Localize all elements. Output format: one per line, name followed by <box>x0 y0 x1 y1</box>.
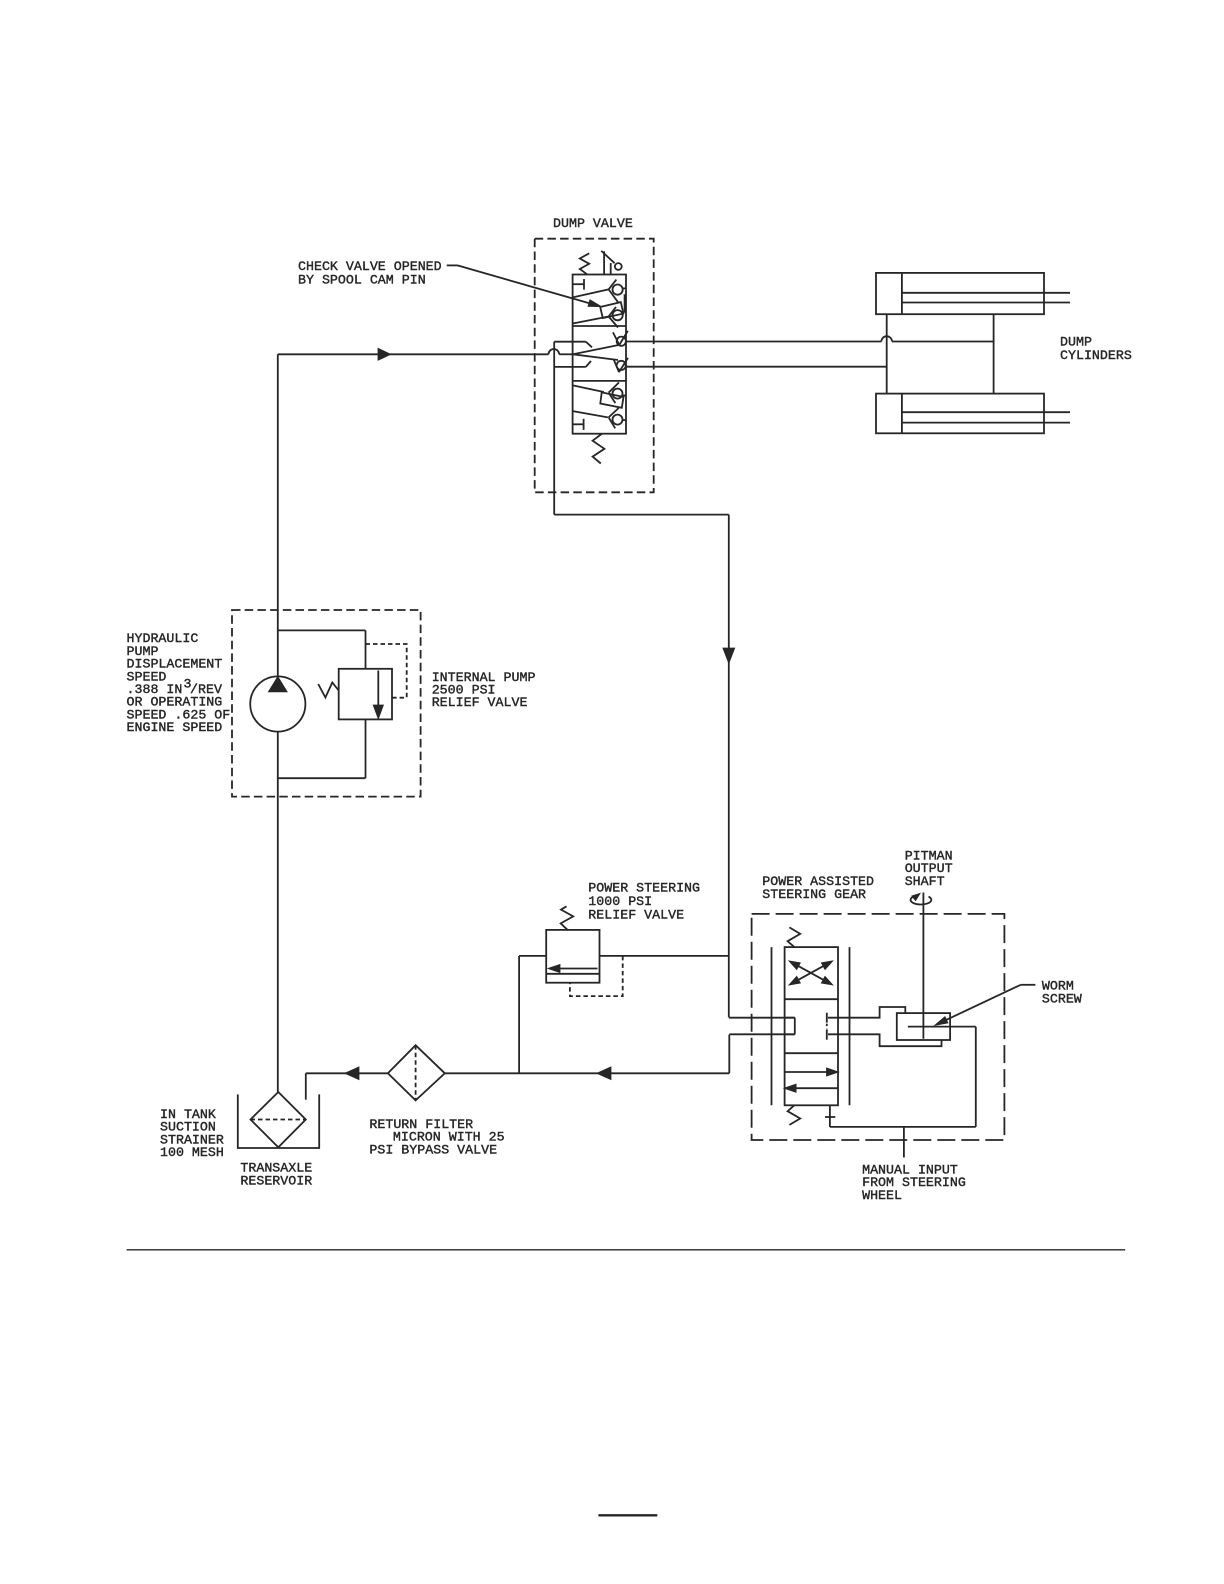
RV2 pilot line (dashed) <box>570 956 623 996</box>
wire: pump suction line down to strainer <box>277 732 279 1092</box>
svg-text:PSI BYPASS VALVE: PSI BYPASS VALVE <box>369 1142 497 1157</box>
wire: RV2 drain (left side) <box>519 956 546 1073</box>
hydraulic pump enclosure (dashed) <box>232 610 421 797</box>
svg-text:SCREW: SCREW <box>1042 991 1082 1006</box>
pump flow triangle <box>269 678 286 692</box>
wire: work line stubs at valve <box>554 342 586 367</box>
RV2 spring (top) <box>561 906 574 930</box>
wire: return out of steering valve <box>729 1033 795 1035</box>
svg-text:RELIEF VALVE: RELIEF VALVE <box>432 695 528 710</box>
internal pump relief valve RV1 body <box>339 669 392 720</box>
check valve CV5 (bottom upper) <box>609 382 626 403</box>
check valve CV6 (bottom lower) <box>609 408 626 428</box>
wire: pump pressure line vertical riser <box>277 354 279 676</box>
mechanical feedback link <box>825 1027 976 1127</box>
wire: rod-side vertical between cylinders <box>993 314 995 393</box>
RV1 pilot line (dashed) <box>366 644 407 698</box>
wire: work line down and across to steering gear <box>554 342 729 1018</box>
worm screw housing <box>897 1013 950 1040</box>
steering valve parallel-flow section arrows <box>785 1072 838 1088</box>
flow arrow on return line (left) <box>598 1068 611 1079</box>
RV1 spring (left) <box>318 683 339 698</box>
wire: valve to worm lower link <box>828 1034 942 1046</box>
steering control valve body <box>785 947 838 1105</box>
steering valve spring (top) <box>788 927 801 947</box>
pitman shaft rotation arrow <box>911 896 932 904</box>
wire: line into RV2 (right side) <box>600 955 729 957</box>
svg-text:ENGINE SPEED: ENGINE SPEED <box>127 720 223 735</box>
flow arrow on pressure line <box>379 349 390 359</box>
bottom section feed lines <box>573 385 608 417</box>
steering valve crossed-flow section (X with arrows) <box>790 962 831 985</box>
RV1 internal flow arrow (down) <box>377 671 379 708</box>
svg-text:WHEEL: WHEEL <box>862 1188 902 1203</box>
check valve CV3 (middle upper) <box>613 331 628 346</box>
dump valve spring (bottom) <box>593 434 605 464</box>
dump valve body <box>573 275 626 434</box>
middle section inlet funnel <box>573 342 619 367</box>
power steering relief valve RV2 body <box>546 930 599 983</box>
power assisted steering gear enclosure (dashed) <box>752 914 1005 1140</box>
wire: pump pressure line horizontal with crossover hop <box>278 349 573 354</box>
wire: filter to tank <box>306 1073 388 1099</box>
pitman output shaft line <box>922 893 924 1039</box>
bottom center mark <box>598 1514 657 1516</box>
steering valve center section port bracket <box>785 1018 795 1035</box>
leader line: manual input label <box>903 1127 905 1158</box>
svg-text:RELIEF VALVE: RELIEF VALVE <box>588 907 684 922</box>
svg-text:100 MESH: 100 MESH <box>160 1145 224 1160</box>
flow arrow before tank (left) <box>346 1068 359 1079</box>
check valve CV2 (top section lower, opened by cam pin) <box>573 294 625 327</box>
dump valve spring (top) <box>580 253 589 274</box>
dump valve enclosure (dashed) <box>535 239 654 493</box>
svg-text:BY SPOOL CAM PIN: BY SPOOL CAM PIN <box>298 273 426 288</box>
wire: RV1 outlet to pump suction <box>278 719 366 778</box>
spool cam pin block (top section) <box>600 302 623 318</box>
leader line: check valve label <box>447 265 596 305</box>
wire: supply into steering valve <box>729 1017 795 1019</box>
dump cylinder 1 (top) <box>876 273 1070 314</box>
dump cylinder 2 (bottom) <box>876 394 1070 434</box>
wire: cylinder rod-side line with hop <box>626 336 994 341</box>
return filter F1 (diamond) <box>388 1045 445 1100</box>
wire: pump outlet branch to relief valve <box>278 630 366 668</box>
svg-text:SHAFT: SHAFT <box>905 874 945 889</box>
dump valve roller lever actuator <box>601 251 621 274</box>
transaxle reservoir (tank) <box>238 1094 319 1148</box>
steering valve blocked ports (T bars) <box>826 1013 828 1040</box>
steering valve spring (bottom) <box>788 1105 801 1125</box>
hydraulic pump P1 (circle) <box>250 676 305 731</box>
wire: cylinder cap-side line <box>626 366 887 368</box>
page rule <box>127 1249 1126 1251</box>
steering valve side rail (left) <box>771 947 773 1105</box>
suction strainer S1 (diamond) <box>251 1092 306 1147</box>
plugged port (bottom section) <box>573 419 584 430</box>
svg-text:CYLINDERS: CYLINDERS <box>1060 348 1132 363</box>
svg-text:DUMP VALVE: DUMP VALVE <box>553 216 633 231</box>
steering valve side rail (right) <box>849 947 851 1105</box>
wire: cap-side vertical between cylinders <box>886 314 888 393</box>
worm screw shaft line <box>908 1026 976 1028</box>
svg-text:STEERING GEAR: STEERING GEAR <box>762 887 866 902</box>
wire: return line to filter <box>445 1072 730 1074</box>
flow arrow on work line (down) <box>724 649 734 663</box>
svg-text:RESERVOIR: RESERVOIR <box>240 1173 312 1188</box>
spool cam block (bottom section) <box>600 392 623 407</box>
check valve CV1 (top section upper) <box>573 280 626 303</box>
leader line: worm screw label <box>940 985 1035 1023</box>
check valve CV4 (middle lower) <box>614 358 628 372</box>
wire: valve to worm upper link <box>828 1007 905 1018</box>
plugged port (top section) <box>573 279 584 290</box>
wire: steering gear return drop <box>728 1035 730 1074</box>
RV2 internal flow arrow (left) <box>546 969 599 974</box>
